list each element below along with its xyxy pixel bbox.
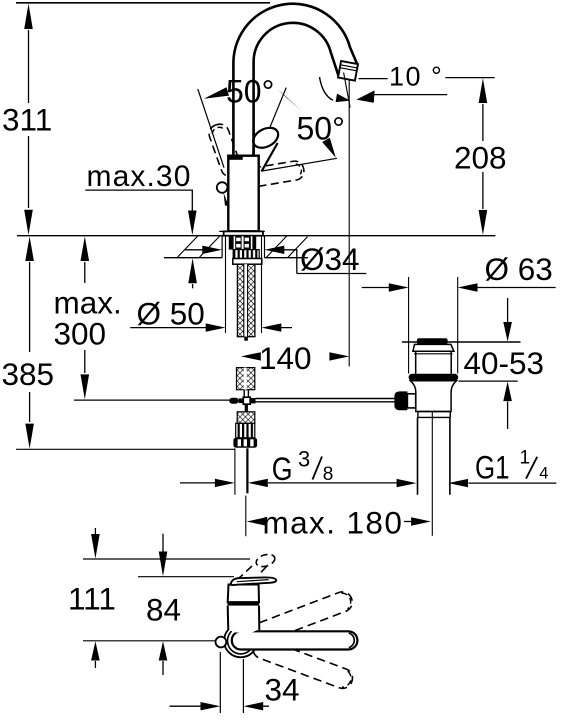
dimension max.300 vertical line with arrows [84,262,86,373]
dimension 84 arrows [162,534,164,552]
111 extension line (lever raised top) [83,558,250,560]
mounting shank section below counter [229,236,256,249]
countertop hole edges [222,236,264,258]
plumb reference line from outlet down to 140 dimension [348,80,350,367]
Ø50 escutcheon extension lines [226,236,262,333]
10 degree annotation arc arrow [320,77,334,100]
svg-text:111: 111 [68,581,116,617]
dimension 34 extension lines [220,652,243,713]
base plate [219,230,265,232]
drain plug cap (black) [417,338,448,344]
lever blade (top view) [231,577,277,585]
pull-rod knob on body [217,182,228,193]
svg-text:50°: 50° [226,74,274,110]
hose upper hatched section [237,368,255,390]
50 degree lower leg line [262,158,337,171]
countertop underside line [164,257,308,259]
svg-text:G: G [272,451,293,487]
50 degree lower arrowhead [322,138,336,158]
drain valve body [411,381,457,412]
G1 1/4 dimension arrows at drain tailpipe [468,482,556,484]
sink basin line at drain [402,341,521,343]
svg-text:G1: G1 [475,450,510,486]
knurled mounting nut [233,250,259,259]
bottom extension line (spout axis) [83,640,215,642]
hose lower hatched section [237,412,255,424]
dimension 34 line with arrows [170,705,270,707]
dashed spout down position [250,636,355,691]
dimension max. 180 [247,517,267,525]
max.30 lower arrow pointing up at underside [192,284,194,288]
svg-text:8: 8 [323,464,334,485]
svg-text:Ø 63: Ø 63 [485,251,553,287]
svg-text:34: 34 [265,672,300,708]
svg-text:4: 4 [539,465,548,483]
svg-text:50°: 50° [297,111,345,147]
drain O-ring (black) [409,374,459,381]
faucet body [228,156,258,232]
svg-text:300: 300 [54,316,107,352]
svg-text:10 °: 10 ° [389,62,443,92]
svg-text:385: 385 [2,356,55,392]
swivel pivot circles [224,624,257,657]
svg-text:3: 3 [298,447,310,472]
dashed raised lever end (top view) [255,552,277,569]
dashed raised lever side lines [236,566,252,581]
dimension 311 vertical line with arrows [28,30,30,208]
hose neck above rod [244,390,248,398]
side knob (top view) [216,637,227,648]
hose segment below rod [245,404,248,411]
svg-text:Ø 50: Ø 50 [137,296,205,332]
svg-text:Ø34: Ø34 [300,241,360,277]
hose connector nut bottom [233,438,257,448]
dashed lever closed position (left) [207,122,244,180]
body top black band [228,155,243,160]
countertop section hatching [177,236,308,258]
drain upper flange [413,344,454,351]
drain tailpipe [418,417,450,494]
pop-up rod (horizontal) [256,399,395,402]
dimension 311 top reference line [16,2,270,4]
threaded shank with hose inside [237,264,255,337]
50 degree upper-right leg line [264,88,287,143]
G3/8 dimension line with arrows [180,482,397,484]
svg-text:84: 84 [146,591,181,627]
pop-up rod clamp at faucet [229,398,238,404]
Ø63 dimension line with arrows [362,287,556,289]
faucet body (top view) [228,585,259,603]
aerator at spout outlet [338,61,358,81]
Ø63 extension lines [409,277,458,374]
10 degree leader lines [359,78,495,79]
countertop surface line [17,235,495,237]
Ø34 dimension arrows at counter hole [185,250,366,274]
max.300 bottom reference line [74,399,230,401]
mounting nut flange [233,259,262,265]
pop-up rod knob at drain (black) [394,391,407,410]
50 degree upper arrowheads [204,87,229,99]
50 degree upper-left leg line [198,89,224,168]
hose connector ribbed nut [236,423,255,438]
40-53 lower reference line [459,380,518,382]
dashed spout up position [250,589,355,645]
10 degree horizontal leg with arrowhead [374,94,448,96]
solid lever (cylinder with open elliptical top) [253,133,277,172]
svg-text:max.30: max.30 [87,160,192,193]
spout tube (gooseneck) [233,4,357,156]
svg-text:208: 208 [454,139,507,175]
dimension 208 vertical line with arrows [482,104,484,209]
385 bottom reference line [16,448,235,450]
svg-text:311: 311 [2,102,52,138]
svg-text:max. 180: max. 180 [263,504,404,540]
svg-text:140: 140 [259,340,312,376]
dashed lever open position (right) [244,160,305,188]
40-53 arrows [507,298,509,323]
dimension 385 vertical line with arrows [29,262,31,422]
solid spout (top view capsule) [232,631,358,649]
drain centerline [431,412,433,536]
drain body lower band [418,412,450,418]
svg-text:40-53: 40-53 [464,345,545,381]
supply hose tails G3/8 [234,448,236,495]
svg-text:1: 1 [520,447,531,468]
84 extension line (lever top) [138,576,234,578]
dimension 111 arrows [94,528,96,535]
